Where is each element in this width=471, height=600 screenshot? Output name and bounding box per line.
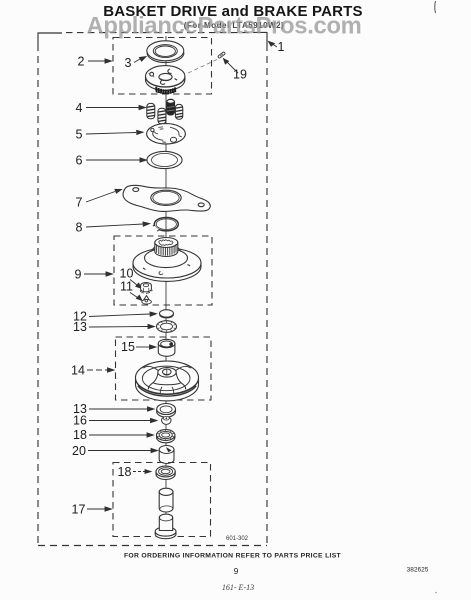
shoulder boss — [145, 248, 188, 267]
label 13 leader — [89, 324, 155, 328]
snap ring (part 8) — [153, 218, 179, 232]
label 6 leader — [86, 158, 147, 162]
svg-text:14: 14 — [71, 364, 85, 378]
ball nut (part 16) — [162, 417, 172, 425]
svg-text:13: 13 — [73, 320, 87, 334]
part 19 pin — [218, 52, 226, 59]
label 13 lower leader — [89, 407, 154, 411]
svg-text:18: 18 — [118, 465, 132, 479]
bearing (part 13 lower) — [157, 404, 176, 418]
label 2 leader — [88, 59, 112, 63]
spacer (part 15) — [158, 339, 175, 356]
svg-text:4: 4 — [76, 101, 83, 115]
svg-text:7: 7 — [76, 196, 83, 210]
svg-text:20: 20 — [72, 444, 86, 458]
brake hub assembly — [133, 238, 201, 282]
label 8 leader — [86, 222, 150, 227]
label 20 leader — [88, 448, 158, 452]
box 17 dashed (shaft assembly) — [113, 463, 211, 537]
label 3 leader — [134, 57, 146, 63]
label 14 leader — [87, 368, 114, 372]
svg-text:15: 15 — [121, 340, 135, 354]
svg-text:161- E-13: 161- E-13 — [222, 583, 254, 592]
svg-text:3: 3 — [125, 56, 132, 70]
label 4 leader — [86, 105, 146, 109]
large disc — [133, 263, 201, 281]
svg-text:601-302: 601-302 — [226, 536, 249, 542]
cup (part 20) — [159, 446, 174, 464]
label 19 leader — [224, 59, 239, 73]
ring (part 6) — [147, 151, 182, 168]
label 7 leader — [86, 189, 122, 202]
label 18 upper leader — [89, 433, 154, 437]
label 11 leader — [130, 293, 142, 301]
spokes — [143, 366, 158, 370]
label 10 leader — [130, 280, 142, 289]
label 1 leader — [269, 41, 278, 47]
clutch plate (part of assembly 2) — [146, 66, 185, 91]
clutch gear teeth — [156, 87, 176, 95]
stray mark top right — [434, 1, 437, 13]
svg-text:2: 2 — [78, 55, 85, 69]
svg-text:9: 9 — [234, 566, 239, 576]
svg-text:16: 16 — [73, 414, 87, 428]
label 9 leader — [84, 272, 113, 276]
svg-text:AppliancePartsPros.com: AppliancePartsPros.com — [86, 13, 361, 40]
label 18 lower leader — [133, 470, 151, 474]
spline cylinder — [155, 243, 178, 252]
svg-text:9: 9 — [75, 268, 82, 282]
label 12 leader — [89, 312, 157, 317]
nut (part 10) — [140, 283, 152, 294]
label 16 leader — [89, 418, 157, 422]
svg-text:FOR ORDERING INFORMATION REFER: FOR ORDERING INFORMATION REFER TO PARTS … — [124, 553, 342, 560]
stray mark bottom right — [435, 592, 437, 594]
box 2 dashed (clutch assembly) — [113, 38, 212, 95]
outer dashed border box — [38, 32, 267, 545]
label 15 leader — [136, 345, 156, 349]
svg-text:382625: 382625 — [407, 567, 429, 574]
box 9 dashed (brake assembly) — [114, 236, 212, 305]
mounting plate (part 7) — [123, 185, 210, 211]
pin 19 dashed leader to plate — [186, 60, 217, 75]
svg-text:5: 5 — [76, 128, 83, 142]
pulley (part inside 14) — [136, 361, 199, 401]
dish ring — [142, 366, 190, 391]
svg-text:8: 8 — [76, 221, 83, 235]
sleeve tube (in 17) — [159, 488, 173, 512]
svg-text:11: 11 — [120, 280, 133, 294]
bearing (part 18 lower) — [156, 466, 175, 479]
cam plate (part 5) — [147, 124, 186, 144]
svg-text:17: 17 — [72, 503, 86, 517]
bearing (part 18 upper) — [157, 430, 175, 443]
svg-text:18: 18 — [73, 428, 87, 442]
washer (part 12) — [160, 310, 174, 318]
svg-text:10: 10 — [120, 267, 134, 281]
svg-text:1: 1 — [278, 40, 285, 54]
label 5 leader — [86, 130, 143, 134]
svg-text:6: 6 — [76, 154, 83, 168]
label 17 leader — [87, 507, 112, 511]
lock washer (part 13 upper) — [157, 321, 177, 333]
center axis line — [165, 36, 167, 455]
part 3 ring (clutch spring) — [147, 41, 184, 63]
agitator shaft foot (in 17) — [155, 514, 176, 539]
box 14 dashed (pulley assembly) — [116, 337, 212, 400]
hub volcano — [153, 373, 181, 385]
springs (part 4) — [147, 99, 183, 124]
clip (part 11) — [142, 296, 152, 304]
